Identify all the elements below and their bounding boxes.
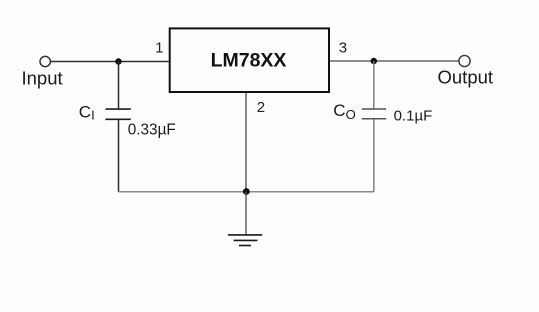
wire pin 2 down	[245, 93, 247, 192]
svg-text:LM78XX: LM78XX	[211, 49, 287, 71]
output terminal circle	[459, 55, 470, 66]
svg-text:2: 2	[257, 99, 265, 116]
wire CO branch upper	[373, 61, 375, 108]
wire ground stem	[245, 192, 247, 235]
svg-text:Input: Input	[22, 68, 63, 89]
wire bottom rail	[119, 191, 374, 193]
wire CO branch lower	[373, 120, 375, 192]
svg-text:0.1µF: 0.1µF	[394, 107, 433, 124]
regulator U1 LM78XX box	[170, 28, 329, 92]
svg-text:1: 1	[155, 40, 163, 57]
wire CI branch lower	[118, 120, 120, 192]
wire CI branch upper	[118, 62, 120, 109]
svg-text:0.33µF: 0.33µF	[128, 122, 176, 139]
capacitor CI plates	[105, 108, 130, 110]
wire input to pin 1	[51, 61, 169, 63]
capacitor CO plates	[362, 108, 386, 110]
node ground junction	[243, 188, 250, 195]
svg-text:3: 3	[339, 39, 347, 56]
node junction at CI	[115, 58, 122, 65]
svg-text:Output: Output	[438, 66, 494, 87]
ground	[228, 235, 262, 246]
wire pin 3 to output	[330, 60, 459, 62]
input terminal circle	[40, 56, 50, 66]
node junction at CO	[371, 58, 378, 65]
